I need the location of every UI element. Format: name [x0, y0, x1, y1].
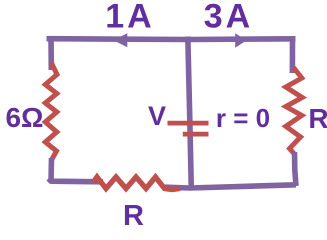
svg-text:R: R [123, 200, 144, 232]
wire bottom [49, 179, 297, 189]
wire left vertical (bottom stub) [48, 158, 54, 182]
resistor R bottom zigzag [94, 177, 181, 190]
wire top [47, 36, 296, 42]
label V [148, 101, 166, 131]
battery long plate [168, 121, 209, 126]
resistor R_6ohm zigzag [45, 62, 57, 160]
battery short plate [183, 132, 209, 137]
wire right vertical (bottom stub) [295, 152, 297, 186]
svg-text:R: R [308, 103, 327, 134]
arrow current 1A (points left) [113, 33, 127, 47]
label r = 0 [216, 103, 270, 133]
wire right vertical (top stub) [290, 37, 296, 74]
svg-text:3A: 3A [204, 0, 253, 36]
svg-text:6Ω: 6Ω [5, 102, 43, 133]
resistor R right zigzag [286, 68, 302, 154]
label 3A [204, 0, 253, 36]
label R right [308, 103, 327, 134]
svg-text:1A: 1A [105, 0, 154, 36]
arrow current 3A (points right) [235, 33, 246, 47]
svg-text:r = 0: r = 0 [216, 103, 270, 133]
svg-text:V: V [148, 101, 166, 131]
label 6 ohm [5, 102, 43, 133]
wire middle vertical [188, 37, 192, 190]
label R bottom [123, 200, 144, 232]
label 1A [105, 0, 154, 36]
wire left vertical (top stub) [48, 37, 54, 71]
